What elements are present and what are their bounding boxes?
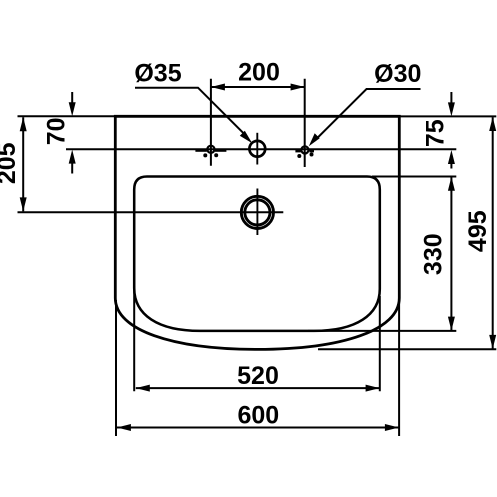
svg-text:520: 520 (237, 362, 279, 390)
520 right extension (379, 296, 381, 391)
dimension 70 bottom arrow (69, 150, 76, 164)
left knockout hole side dashes (195, 149, 207, 152)
drain hole inner circle (245, 200, 270, 225)
svg-text:200: 200 (238, 58, 280, 86)
dimension 600 right arrow (385, 424, 399, 431)
dimension 520 line (136, 387, 380, 389)
dimension 330 top arrow (448, 177, 455, 191)
dimension 520 left arrow (136, 385, 150, 392)
dimension 600 line (117, 427, 399, 429)
dimension 75 bottom arrow (448, 150, 455, 164)
inner bowl outline (134, 177, 380, 331)
svg-text:75: 75 (421, 119, 449, 147)
left tap hole extension line (210, 79, 212, 166)
svg-text:205: 205 (0, 142, 21, 184)
svg-text:495: 495 (464, 210, 492, 252)
dimension 70 top arrow (69, 102, 76, 116)
dimension 495 bottom arrow (489, 335, 496, 349)
520 left extension (133, 286, 135, 391)
svg-text:Ø35: Ø35 (134, 59, 181, 87)
left knockout hole circle (207, 146, 214, 153)
center tap hole vertical axis (256, 133, 258, 165)
center tap hole circle Ø35 (249, 141, 265, 157)
dimension 495 top arrow (489, 117, 496, 131)
outer bottom extension right (318, 348, 496, 350)
svg-text:Ø30: Ø30 (374, 60, 421, 88)
top edge extension left (18, 115, 118, 117)
outer basin outline (115, 116, 399, 349)
left knockout hole lower ticks (203, 153, 207, 157)
dimension 75 top arrow (448, 102, 455, 116)
dimension 600 left arrow (117, 424, 131, 431)
dimension 200 right arrow (291, 84, 305, 91)
dimension 200 left arrow (211, 84, 225, 91)
leader arrow Ø30 (309, 133, 320, 146)
svg-text:330: 330 (420, 233, 448, 275)
600 left extension (115, 300, 117, 436)
inner bowl top extension right (372, 176, 456, 178)
dimension 200 line (211, 86, 305, 88)
leader line for Ø30 (315, 89, 421, 141)
drain hole outer circle (241, 196, 273, 228)
dimension 205 bottom arrow (20, 197, 27, 211)
leader arrow Ø35 (240, 131, 252, 143)
dimension 205 line (22, 117, 24, 211)
tap hole center line (66, 148, 456, 150)
600 right extension (398, 300, 400, 436)
top edge extension right (399, 115, 496, 117)
right tap hole extension line (304, 79, 306, 167)
drain center line (18, 211, 284, 213)
svg-text:70: 70 (43, 117, 71, 145)
dimension 330 line (450, 177, 452, 330)
dimension 205 top arrow (20, 117, 27, 131)
right knockout hole circle (301, 146, 308, 153)
leader line for Ø35 (135, 88, 247, 137)
dimension 495 line (492, 117, 494, 349)
dimension 520 right arrow (366, 385, 380, 392)
dimension 330 bottom arrow (448, 317, 455, 331)
right knockout hole lower ticks (297, 154, 301, 158)
drain hole vertical axis (256, 189, 258, 236)
right knockout hole side dashes (295, 149, 301, 152)
svg-text:600: 600 (237, 401, 279, 429)
inner bowl bottom extension right (308, 330, 456, 332)
